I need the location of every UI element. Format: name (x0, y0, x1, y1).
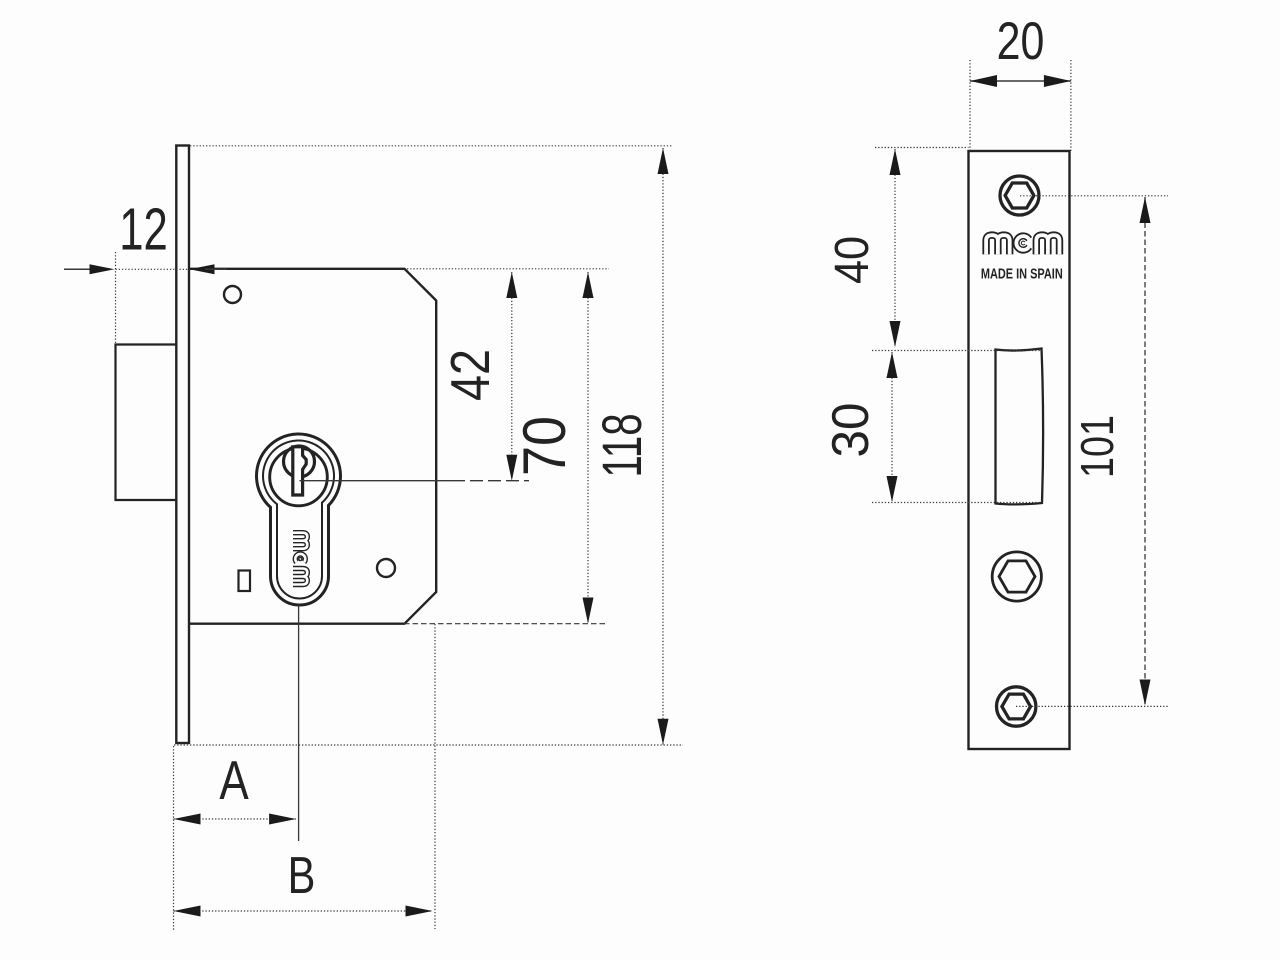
dim 30 line (891, 352, 893, 502)
faceplate (side view, left lock) (176, 146, 189, 744)
body bottom extension line (404, 623, 606, 625)
striker plate outline (969, 151, 1070, 749)
hex screw middle (992, 552, 1041, 601)
dim 40 extension line (875, 147, 969, 149)
dim 30 extension lines (872, 350, 1042, 352)
small rectangular hole (239, 571, 251, 592)
dim 42 line (511, 272, 513, 481)
hex screw bottom (997, 687, 1036, 726)
mcm logo on plate (986, 235, 1059, 254)
body top extension line (407, 268, 609, 270)
dim B line (174, 910, 433, 912)
euro cylinder outer profile (257, 434, 341, 605)
svg-text:MADE IN SPAIN: MADE IN SPAIN (981, 265, 1063, 282)
svg-text:12: 12 (119, 196, 168, 262)
svg-text:40: 40 (825, 236, 879, 284)
cylinder horizontal centerline (300, 480, 453, 482)
dim 40 line (894, 149, 896, 347)
dim A extension left (173, 746, 175, 930)
screw hole top (224, 286, 241, 303)
euro cylinder inner profile (263, 440, 334, 598)
svg-text:42: 42 (439, 349, 500, 401)
rear protrusion (cylinder housing) (116, 345, 177, 501)
dim A line (174, 818, 297, 820)
mcm logo inside cylinder (rotated) (293, 533, 307, 585)
cylinder vertical centerline (298, 605, 300, 841)
svg-text:101: 101 (1071, 415, 1122, 478)
screw hole right (377, 559, 395, 577)
cylinder core circle (270, 448, 328, 506)
svg-text:20: 20 (997, 12, 1045, 71)
dim 70 line (587, 272, 589, 624)
faceplate bottom extension line (174, 744, 683, 746)
dim 20 line (970, 80, 1071, 82)
svg-text:A: A (219, 749, 249, 811)
dim 101 line (1144, 197, 1146, 705)
keyhole circle (284, 446, 315, 477)
keyway profile (293, 447, 306, 495)
dim B extension right (434, 624, 436, 929)
svg-text:70: 70 (511, 416, 578, 476)
lock body outline (189, 269, 436, 624)
svg-text:118: 118 (592, 413, 654, 477)
dim 12 extension line (115, 252, 117, 344)
dim 12 line and arrows (64, 268, 90, 270)
hex screw top (1000, 176, 1039, 215)
svg-text:30: 30 (821, 403, 879, 458)
dim 20 extension lines (969, 60, 971, 151)
latch opening (996, 349, 1044, 505)
dim 118 line (662, 148, 664, 745)
faceplate top extension line (190, 145, 673, 147)
dim 101 extension lines (1020, 195, 1168, 197)
svg-text:B: B (288, 846, 316, 905)
